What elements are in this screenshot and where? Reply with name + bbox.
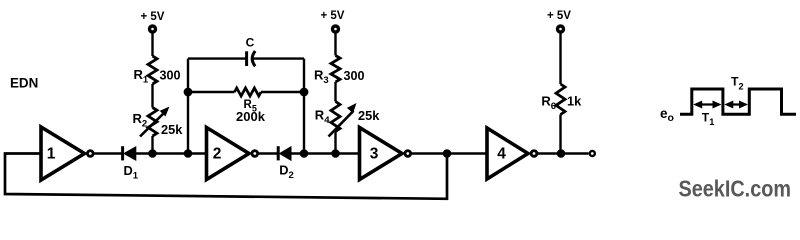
svg-text:4: 4 [497,146,506,163]
inverter U3 (gate 3) [360,128,403,180]
capacitor C [247,51,256,66]
wire: +5V terminal to R6 [559,33,561,84]
svg-text:+ 5V: + 5V [547,10,571,22]
svg-text:+ 5V: + 5V [141,11,165,23]
wire: inverter 3 output to feedback node [412,152,487,154]
wire: top wire to capacitor C left plate [188,57,246,59]
resistor R6 [556,84,565,115]
potentiometer R2 [140,107,170,137]
wire: R4 junction to inverter 3 input [336,152,360,154]
svg-text:25k: 25k [358,108,380,123]
power terminal +5V (left) [141,11,165,32]
power terminal +5V (right) [547,10,571,32]
wire: inverter 1 output to diode D1 [94,152,121,154]
wire: diode D1 to node A (R2 bottom junction) [136,152,188,154]
power terminal +5V (middle) [321,10,345,32]
svg-text:1k: 1k [567,94,582,109]
svg-text:200k: 200k [236,109,266,124]
inverter U2 (gate 2) [207,128,250,180]
svg-text:SeekIC.com: SeekIC.com [679,176,792,202]
wire: R6 to output node [559,115,561,154]
wire: node B to R5 [188,91,235,93]
svg-text:300: 300 [160,69,181,83]
svg-text:300: 300 [344,69,365,83]
svg-text:25k: 25k [161,122,183,137]
wire: inverter 2 output to diode D2 [259,152,277,154]
wire: +5V terminal to R3 [334,32,336,56]
junction node A (D1 / R2 / main line) [148,149,157,158]
junction node B (left box / R5) [184,88,193,97]
wire: +5V terminal to R1 [151,33,153,56]
resistor R5 [235,88,262,96]
dimension arrow T1 [693,101,721,109]
waveform trace e0 square wave [680,89,796,114]
wire: capacitor C right plate to top-right corner [254,57,305,59]
junction: left box bottom on main line [184,149,193,158]
wire: R4 to main line [334,132,336,154]
svg-text:+ 5V: + 5V [321,10,345,22]
wire: left vertical of C/R5 feedback box [187,59,189,154]
dimension arrow T2 [724,101,748,109]
diode D2 [278,146,291,160]
junction: output node (R6 / inverter 4 output) [557,149,566,158]
svg-text:3: 3 [370,146,379,163]
svg-text:1: 1 [47,146,56,163]
resistor R1 [148,56,157,84]
inverter U2 output bubble [252,151,258,157]
potentiometer R4 [329,102,357,137]
wire: R5 to node C [261,91,304,93]
svg-text:C: C [246,36,255,50]
wire: R1 to R2 [151,84,153,108]
wire: R2 to node A [151,136,153,154]
output terminal e0 (open circle) [590,151,595,156]
inverter U3 output bubble [405,151,411,157]
wire: diode D2 to node C bottom [291,152,336,154]
inverter U4 output bubble [531,151,537,157]
wire: inverter 4 output to output terminal [538,152,589,154]
wire: node A area to inverter 2 input [188,152,207,154]
inverter U4 (gate 4) [487,128,528,179]
wire: R3 to R4 [334,82,336,102]
junction node C (right box / R5) [300,88,309,97]
junction: right box bottom on main line [300,149,309,158]
inverter U1 (gate 1) [41,127,85,180]
wire feedback: inverter 3 output node down, across bottom, up to inverter 1 input [5,154,447,199]
svg-text:EDN: EDN [10,76,38,91]
svg-text:2: 2 [213,146,222,163]
wire: right vertical of C/R5 feedback box [303,59,305,154]
resistor R3 [331,56,340,83]
junction: feedback node after inverter 3 [443,149,452,158]
diode D1 [123,146,136,160]
junction: R4 bottom on main line [331,149,340,158]
inverter U1 output bubble [87,151,93,157]
